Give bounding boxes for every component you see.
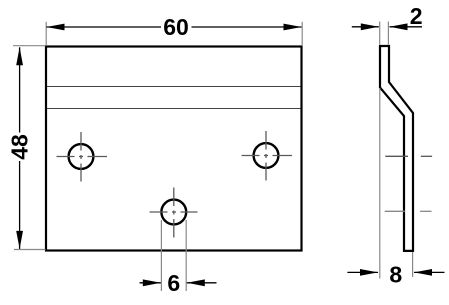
svg-text:8: 8 bbox=[389, 262, 402, 288]
extension line 60 left bbox=[45, 22, 47, 45]
side view center line row1 bbox=[385, 155, 432, 157]
svg-text:48: 48 bbox=[7, 134, 33, 160]
fold line upper bbox=[47, 86, 301, 88]
extension line 8 left bbox=[379, 88, 381, 279]
dimension line 2 right bbox=[390, 26, 423, 28]
extension line 8 right bbox=[412, 252, 414, 277]
center line H1 horizontal bbox=[57, 156, 108, 158]
center line H3 vertical bbox=[173, 188, 175, 238]
arrow 8 right bbox=[414, 269, 432, 276]
hole H3 bottom bbox=[161, 200, 186, 225]
center line H1 vertical bbox=[80, 132, 82, 182]
arrow 6 left bbox=[143, 279, 161, 286]
extension line 6 right bbox=[185, 220, 187, 291]
extension line 6 left bbox=[160, 220, 162, 291]
arrow 48 up bbox=[16, 47, 23, 65]
arrow 2 right bbox=[390, 23, 408, 30]
dimension line 2 left bbox=[352, 26, 379, 28]
hole H1 left bbox=[69, 144, 94, 169]
center line H2 vertical bbox=[265, 131, 267, 181]
svg-text:2: 2 bbox=[410, 3, 423, 29]
plate outline (front view) bbox=[46, 47, 302, 251]
arrow 60 left bbox=[47, 24, 65, 31]
hole H2 right bbox=[254, 143, 279, 168]
arrow 48 down bbox=[16, 231, 23, 249]
svg-text:60: 60 bbox=[163, 14, 189, 40]
dimension line 48 bbox=[19, 47, 21, 249]
fold line lower bbox=[47, 108, 301, 110]
dimension line 6 left bbox=[140, 282, 161, 284]
extension line 48 top bbox=[13, 45, 46, 47]
side view center line row2 bbox=[385, 210, 432, 212]
center line H2 horizontal bbox=[242, 155, 293, 157]
extension line 60 right bbox=[301, 22, 303, 45]
dimension line 6 right bbox=[187, 282, 217, 284]
side view bent profile bbox=[380, 46, 413, 251]
dimension line 8 right bbox=[414, 271, 445, 273]
extension line 2 right bbox=[387, 22, 389, 45]
svg-text:6: 6 bbox=[167, 270, 180, 296]
arrow 8 left bbox=[360, 269, 378, 276]
dimension line 8 left bbox=[347, 271, 378, 273]
extension line 48 bottom bbox=[14, 249, 46, 251]
arrow 60 right bbox=[284, 24, 302, 31]
center line H3 horizontal bbox=[150, 211, 198, 213]
dimension line 60 bbox=[47, 26, 302, 28]
extension line 2 left bbox=[379, 22, 381, 45]
arrow 2 left bbox=[361, 23, 379, 30]
arrow 6 right bbox=[187, 279, 205, 286]
